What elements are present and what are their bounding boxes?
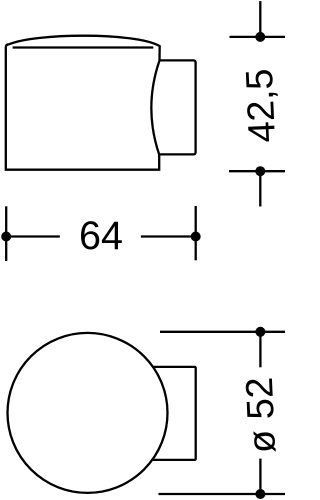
svg-text:64: 64 bbox=[79, 214, 123, 258]
dimension 64: right extension line bbox=[195, 206, 197, 260]
svg-text:42,5: 42,5 bbox=[239, 68, 284, 144]
dimension 64: right dot bbox=[191, 232, 201, 242]
stopper body (side view) bbox=[6, 36, 160, 170]
dimension 64: right line segment bbox=[141, 235, 196, 237]
dimension 64: left dot bbox=[1, 232, 11, 242]
dimension o52: top dot bbox=[255, 327, 265, 337]
dimension 42,5: top extension line bbox=[259, 1, 261, 37]
dimension o52: bottom dot bbox=[255, 489, 265, 499]
dimension 64: left line segment bbox=[6, 235, 60, 237]
dimension 42,5: bottom bar bbox=[229, 170, 285, 172]
svg-text:ø 52: ø 52 bbox=[239, 376, 284, 454]
dimension o52: lower vertical segment bbox=[259, 459, 261, 494]
dimension o52: upper vertical segment bbox=[259, 332, 261, 368]
cap seam line bbox=[13, 46, 154, 48]
dimension o52: bottom line bbox=[159, 493, 286, 495]
stopper circle (front view) bbox=[8, 333, 168, 493]
dimension o52: top line bbox=[160, 331, 285, 333]
dimension 64: left extension line bbox=[5, 206, 7, 261]
wall plate (side view) bbox=[150, 60, 196, 154]
dimension 42,5: bottom dot bbox=[255, 166, 265, 176]
dimension 42,5: top dot bbox=[255, 32, 265, 42]
dimension 42,5: bottom extension line bbox=[259, 171, 261, 206]
wall plate (front view) bbox=[150, 367, 196, 460]
dimension 42,5: top bar bbox=[230, 36, 286, 38]
